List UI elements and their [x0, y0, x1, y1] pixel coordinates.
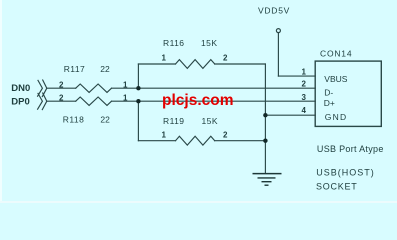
junction dot R119 [263, 139, 267, 143]
svg-text:2: 2 [59, 93, 64, 102]
wire R116 left vertical [137, 64, 139, 88]
ground bar 2 [258, 177, 276, 179]
wire DP0 / D+ net [47, 100, 76, 102]
svg-text:1: 1 [123, 93, 128, 102]
svg-text:2: 2 [302, 80, 307, 89]
junction dot D+ [136, 99, 140, 103]
svg-text:GND: GND [325, 112, 348, 122]
svg-text:CON14: CON14 [320, 49, 352, 59]
junction dot pin4 [263, 113, 267, 117]
wire R116 top right [215, 63, 266, 65]
wire DN0 / D- net [47, 87, 76, 89]
bottom edge light strip [0, 201, 397, 203]
connector DN0 chevron inner [42, 80, 47, 97]
svg-text:15K: 15K [201, 38, 217, 48]
wire VDD to CON14 pin1 [278, 75, 315, 77]
ground bar 1 [253, 173, 282, 175]
resistor R119 [176, 136, 215, 145]
resistor R118 [76, 97, 112, 105]
wire R117 to CON14 pin2 [112, 87, 316, 89]
svg-text:4: 4 [302, 106, 307, 115]
svg-text:2: 2 [223, 130, 228, 139]
svg-text:VBUS: VBUS [324, 74, 347, 84]
wire R119 left vertical [137, 101, 139, 141]
svg-text:R118: R118 [63, 114, 85, 124]
ground bar 4 [265, 184, 269, 186]
svg-text:2: 2 [59, 80, 64, 89]
svg-text:R119: R119 [163, 116, 185, 126]
svg-text:R116: R116 [163, 38, 185, 48]
svg-text:VDD5V: VDD5V [258, 6, 290, 16]
left edge light strip [0, 0, 2, 203]
connector DP0 chevron inner [42, 93, 47, 110]
svg-text:D+: D+ [324, 98, 335, 108]
svg-text:DN0: DN0 [11, 83, 30, 94]
connector DP0 chevron outer [38, 93, 43, 109]
wire R119 bottom right [215, 140, 266, 142]
wire GND vertical [264, 64, 266, 173]
svg-text:DP0: DP0 [11, 96, 29, 107]
svg-text:1: 1 [162, 130, 167, 139]
wire R116 top left [138, 63, 175, 65]
wire R119 bottom left [138, 140, 175, 142]
svg-text:2: 2 [223, 54, 228, 63]
power VDD5V stem [277, 33, 279, 76]
wire R118 to CON14 pin3 [112, 100, 316, 102]
power VDD5V circle [276, 29, 280, 33]
junction dot D- [136, 86, 140, 90]
svg-text:USB(HOST): USB(HOST) [316, 168, 375, 178]
svg-text:plcjs.com: plcjs.com [162, 92, 234, 109]
resistor R116 [176, 60, 215, 69]
svg-text:USB Port Atype: USB Port Atype [317, 144, 384, 154]
svg-text:22: 22 [100, 114, 110, 124]
svg-text:R117: R117 [64, 64, 85, 74]
svg-text:3: 3 [302, 93, 307, 102]
svg-text:1: 1 [123, 80, 128, 89]
ground bar 3 [262, 181, 272, 183]
svg-text:D-: D- [324, 88, 333, 98]
svg-text:1: 1 [162, 54, 167, 63]
svg-text:22: 22 [100, 64, 110, 74]
wire CON14 pin4 GND [265, 114, 315, 116]
connector DN0 chevron outer [38, 80, 43, 96]
svg-text:SOCKET: SOCKET [316, 182, 358, 192]
resistor R117 [76, 84, 112, 92]
connector CON14 body [315, 61, 381, 126]
svg-text:1: 1 [302, 67, 307, 76]
svg-text:15K: 15K [202, 116, 218, 126]
